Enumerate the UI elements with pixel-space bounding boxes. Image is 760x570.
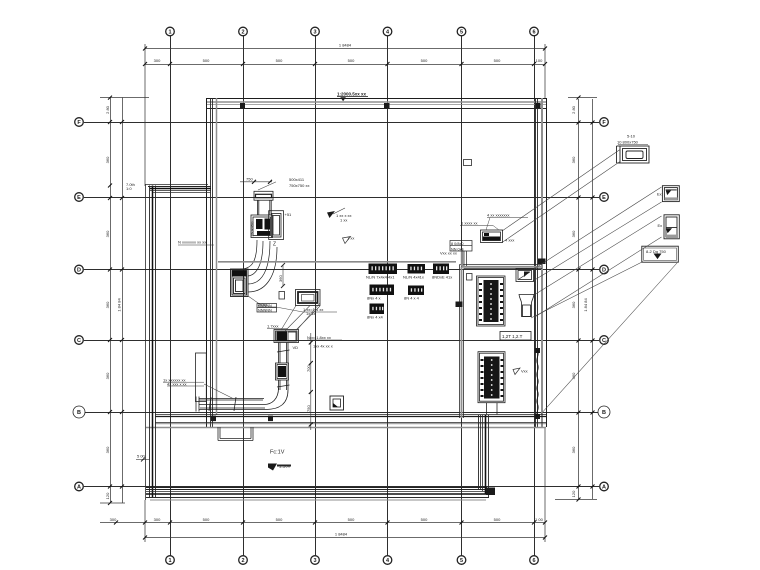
svg-text:+51: +51 — [285, 212, 293, 217]
svg-text:10 800x750: 10 800x750 — [617, 140, 639, 145]
svg-text:Ex: Ex — [657, 192, 662, 197]
svg-text:360: 360 — [278, 275, 283, 282]
svg-text:1 84 84: 1 84 84 — [117, 298, 122, 312]
svg-text:500: 500 — [203, 517, 210, 522]
svg-text:1 8484: 1 8484 — [339, 43, 352, 48]
svg-text:8N 4 x 4: 8N 4 x 4 — [404, 296, 420, 301]
svg-text:4 xxx: 4 xxx — [505, 238, 514, 243]
svg-text:2 80: 2 80 — [105, 105, 110, 114]
svg-text:360: 360 — [105, 156, 110, 163]
svg-text:6: 6 — [532, 30, 535, 36]
svg-text:C: C — [602, 338, 606, 344]
svg-text:NN 0x4: NN 0x4 — [451, 248, 464, 252]
svg-text:360: 360 — [571, 301, 576, 308]
svg-text:1: 1 — [168, 30, 171, 36]
svg-text:360: 360 — [105, 446, 110, 453]
svg-text:500: 500 — [276, 58, 283, 63]
svg-text:360: 360 — [105, 230, 110, 237]
svg-text:700: 700 — [306, 365, 311, 372]
svg-text:300: 300 — [154, 517, 161, 522]
svg-text:B: B — [602, 410, 606, 416]
svg-text:5: 5 — [460, 558, 463, 564]
svg-text:1 8484: 1 8484 — [335, 532, 348, 537]
svg-text:NL/N 7x4x4 4x1: NL/N 7x4x4 4x1 — [366, 275, 395, 280]
svg-text:3: 3 — [313, 558, 316, 564]
svg-text:8-2 Dg 750: 8-2 Dg 750 — [646, 249, 667, 254]
svg-text:A: A — [602, 485, 606, 491]
svg-text:750x750 xx: 750x750 xx — [289, 183, 309, 188]
svg-text:300: 300 — [154, 58, 161, 63]
svg-text:1: 1 — [168, 558, 171, 564]
svg-text:N xxxxxxx xx xx: N xxxxxxx xx xx — [178, 240, 206, 245]
svg-text:8Nx 4 x: 8Nx 4 x — [367, 296, 381, 301]
svg-text:1 xx: 1 xx — [340, 218, 347, 223]
svg-text:360: 360 — [105, 372, 110, 379]
svg-text:8NDxE 41x: 8NDxE 41x — [432, 275, 452, 280]
svg-text:500: 500 — [421, 517, 428, 522]
svg-text:750x450: 750x450 — [250, 221, 255, 237]
svg-text:6: 6 — [532, 558, 535, 564]
svg-text:500x411: 500x411 — [289, 177, 305, 182]
svg-text:5: 5 — [460, 30, 463, 36]
svg-text:1 00: 1 00 — [535, 517, 544, 522]
svg-text:A: A — [77, 485, 81, 491]
svg-text:500: 500 — [348, 58, 355, 63]
svg-text:120: 120 — [105, 492, 110, 499]
svg-text:100: 100 — [536, 58, 543, 63]
svg-text:E: E — [77, 195, 81, 201]
svg-text:1.7xxx: 1.7xxx — [267, 324, 279, 329]
svg-text:360: 360 — [571, 156, 576, 163]
svg-text:1,2T 1,2.T: 1,2T 1,2.T — [502, 334, 523, 339]
svg-text:120: 120 — [571, 490, 576, 497]
svg-text:2: 2 — [241, 558, 244, 564]
svg-text:Vxx: Vxx — [521, 369, 528, 374]
svg-text:NNNNN: NNNNN — [258, 309, 272, 313]
svg-text:1 84 84: 1 84 84 — [583, 298, 588, 312]
svg-text:360: 360 — [571, 230, 576, 237]
svg-text:Fc:1V: Fc:1V — [270, 450, 285, 456]
svg-text:D: D — [602, 268, 606, 274]
svg-text:8Nx 4 x4: 8Nx 4 x4 — [367, 315, 384, 320]
svg-text:2 80: 2 80 — [571, 105, 576, 114]
svg-text:C: C — [77, 338, 81, 344]
svg-text:500: 500 — [276, 517, 283, 522]
svg-text:1 xx: 1 xx — [347, 236, 354, 241]
svg-text:500: 500 — [203, 58, 210, 63]
svg-text:2: 2 — [241, 30, 244, 36]
svg-text:8 0/8x0: 8 0/8x0 — [451, 242, 463, 246]
svg-text:B: B — [77, 410, 81, 416]
svg-text:750: 750 — [306, 405, 311, 412]
svg-text:500: 500 — [348, 517, 355, 522]
svg-text:NNNNN: NNNNN — [258, 304, 272, 308]
svg-text:1:0: 1:0 — [126, 186, 132, 191]
svg-text:1:2000.5xx xx: 1:2000.5xx xx — [337, 92, 367, 97]
svg-text:VD: VD — [293, 345, 299, 350]
svg-text:1xx 4x xx x: 1xx 4x xx x — [313, 344, 333, 349]
svg-text:360: 360 — [105, 301, 110, 308]
svg-text:500: 500 — [421, 58, 428, 63]
svg-text:Ex: Ex — [658, 223, 663, 228]
svg-text:750: 750 — [246, 177, 253, 182]
svg-text:1 xxxx xx: 1 xxxx xx — [461, 221, 477, 226]
svg-text:NL/N 4x41x: NL/N 4x41x — [403, 275, 424, 280]
svg-text:500: 500 — [494, 517, 501, 522]
svg-text:3: 3 — [313, 30, 316, 36]
svg-text:5-10: 5-10 — [627, 134, 636, 139]
svg-text:300: 300 — [110, 517, 117, 522]
svg-text:500: 500 — [494, 58, 501, 63]
svg-text:360: 360 — [571, 446, 576, 453]
svg-text:E: E — [602, 195, 606, 201]
svg-text:D: D — [77, 268, 81, 274]
svg-text:4 xx xxxxxxx: 4 xx xxxxxxx — [487, 213, 509, 218]
svg-text:Z: Z — [273, 242, 276, 248]
